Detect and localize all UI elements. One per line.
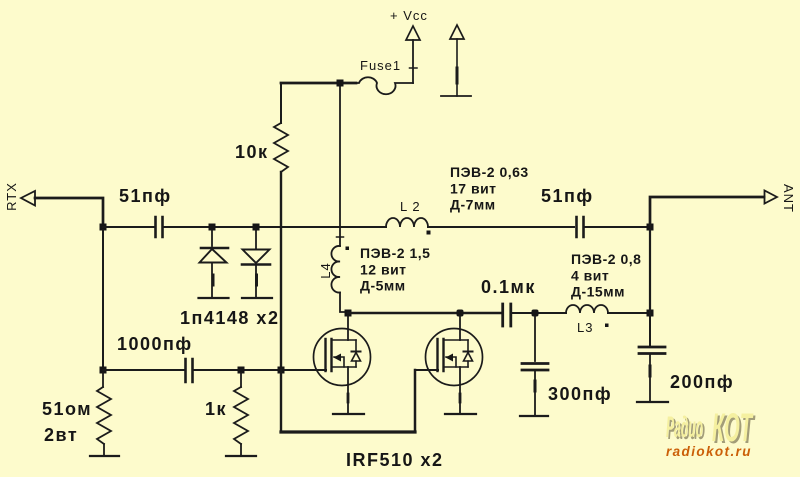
- resistor R 51om zigzag: [97, 387, 111, 444]
- transistor Q1 gate bar: [324, 339, 326, 371]
- capacitor C 51pf output: [577, 217, 584, 237]
- svg-text:Д-5мм: Д-5мм: [360, 278, 406, 294]
- wire top rail to fuse: [281, 82, 356, 85]
- inductor L3 coil: [566, 305, 608, 313]
- capacitor C 0.1mk: [503, 304, 511, 326]
- wire 1000pf node vertical: [102, 230, 104, 370]
- wire input line mid: [164, 226, 386, 228]
- transistor Q2 source stub: [444, 366, 469, 368]
- wire L4 to drain rail: [340, 293, 348, 313]
- transistor Q1 body stub + arrow: [334, 357, 344, 367]
- svg-text:Радио: Радио: [666, 411, 703, 444]
- resistor R 10k zigzag: [274, 123, 288, 172]
- transistor Q1 source stub: [332, 366, 357, 368]
- transistor Q1 source lead: [347, 367, 349, 413]
- resistor R 1k lead bottom: [240, 444, 242, 456]
- svg-text:RTX: RTX: [4, 182, 19, 211]
- wire gate line left: [103, 369, 184, 371]
- svg-text:51пф: 51пф: [541, 186, 594, 206]
- pin dash Q2 source: [459, 394, 462, 402]
- wire input line left: [103, 226, 154, 228]
- transistor Q2 drain stub: [444, 339, 469, 341]
- capacitor C 1000pf: [186, 359, 193, 382]
- diode D1 cathode bar: [201, 247, 228, 250]
- ground 1k: [226, 455, 256, 457]
- ground bar (aux): [441, 95, 471, 97]
- ground 200pf: [637, 401, 668, 403]
- svg-text:2вт: 2вт: [44, 425, 78, 445]
- wire bias drop to gate bus: [280, 370, 282, 432]
- wire cap to L3: [512, 312, 566, 314]
- resistor R 10k lead top: [280, 83, 282, 123]
- wire to ANT node: [585, 226, 650, 228]
- transistor Q2 body stub + arrow: [446, 357, 456, 367]
- junction 1k node: [238, 367, 245, 374]
- transistor Q1 drain lead: [347, 316, 349, 340]
- winding dot L4: [346, 247, 350, 251]
- svg-text:0.1мк: 0.1мк: [481, 277, 536, 297]
- port RTX arrow: [21, 191, 35, 206]
- svg-text:ANT: ANT: [781, 184, 796, 213]
- watermark Радио КОТ: [666, 406, 756, 459]
- transistor Q1 body diode: [355, 340, 357, 367]
- pin dash 200pf: [649, 366, 652, 376]
- resistor R 51om lead: [102, 373, 104, 387]
- ground Q1: [333, 413, 364, 415]
- pin dash on Vcc stem: [410, 67, 418, 69]
- wire aux stem: [456, 39, 458, 96]
- pin dash on L4 feed: [337, 236, 344, 238]
- pin dash D1: [212, 275, 215, 285]
- wire RTX lead: [35, 198, 103, 227]
- junction diode D1 node: [209, 224, 216, 231]
- inductor L2 coil: [386, 218, 428, 227]
- junction at top rail x340: [337, 80, 344, 87]
- fuse F1 symbol: [356, 77, 413, 94]
- svg-text:10к: 10к: [235, 142, 269, 162]
- junction output node: [647, 310, 654, 317]
- power symbol +Vcc arrow: [406, 26, 420, 40]
- wire gate lead M2: [415, 369, 438, 371]
- ground D2: [242, 297, 272, 299]
- diode D2 lead bottom: [255, 265, 257, 297]
- capacitor C 51pf input: [156, 217, 163, 237]
- ground 51om: [90, 455, 119, 457]
- junction bias node: [278, 367, 285, 374]
- transistor Q2 gate bar: [436, 339, 438, 371]
- resistor R 51om lead bottom: [103, 444, 105, 456]
- svg-text:4 вит: 4 вит: [571, 268, 609, 284]
- pin dash D2: [255, 275, 258, 285]
- resistor R 1k zigzag: [234, 387, 248, 444]
- wire bias line vertical x282: [280, 172, 282, 370]
- svg-text:radiokot.ru: radiokot.ru: [666, 444, 752, 459]
- wire gate bus riser: [414, 370, 417, 432]
- resistor R 1k lead: [240, 373, 242, 387]
- wire L3 to ANT node: [608, 312, 650, 314]
- svg-text:1к: 1к: [205, 399, 227, 419]
- diode D1 triangle: [200, 249, 227, 263]
- junction drain node M1: [345, 310, 352, 317]
- ground 300pf: [520, 415, 548, 417]
- inductor L4 coil: [331, 246, 340, 293]
- svg-text:ПЭВ-2 1,5: ПЭВ-2 1,5: [360, 245, 430, 261]
- svg-text:300пф: 300пф: [548, 384, 612, 404]
- junction 300pf node: [532, 310, 539, 317]
- svg-text:ПЭВ-2 0,8: ПЭВ-2 0,8: [571, 251, 641, 267]
- capacitor C 200pf lead: [649, 313, 651, 345]
- winding dot L2: [427, 231, 431, 235]
- svg-text:L3: L3: [577, 320, 593, 335]
- capacitor C 200pf lead bottom: [649, 355, 651, 401]
- winding dot L3: [605, 324, 609, 328]
- svg-text:200пф: 200пф: [670, 372, 734, 392]
- junction drain node M2: [457, 310, 464, 317]
- svg-text:51пф: 51пф: [119, 186, 172, 206]
- ground Q2: [445, 413, 476, 415]
- svg-text:IRF510 x2: IRF510 x2: [346, 450, 444, 470]
- diode D2 lead: [255, 231, 257, 248]
- pin dash Q1 source: [347, 394, 350, 402]
- transistor Q2 channel dashes: [442, 339, 444, 371]
- svg-text:L 2: L 2: [400, 199, 421, 214]
- svg-text:Д-7мм: Д-7мм: [450, 197, 496, 213]
- capacitor C 300pf lead: [534, 316, 536, 361]
- ground D1: [199, 297, 229, 299]
- svg-text:Fuse1: Fuse1: [360, 58, 401, 73]
- pin dash on aux stem: [456, 68, 459, 83]
- wire L4 feed vertical x340: [339, 87, 341, 246]
- transistor Q2 drain lead: [459, 316, 461, 340]
- transistor Q2 body diode: [467, 340, 469, 367]
- wire gate bus bottom: [281, 430, 415, 433]
- svg-text:17 вит: 17 вит: [450, 181, 497, 197]
- svg-text:1п4148 x2: 1п4148 x2: [180, 308, 279, 328]
- junction RTX node: [100, 224, 107, 231]
- svg-text:12 вит: 12 вит: [360, 262, 407, 278]
- transistor Q2 source lead: [459, 367, 461, 413]
- diode D2 triangle: [243, 250, 270, 264]
- junction ANT node: [647, 224, 654, 231]
- wire gate line right: [194, 369, 326, 371]
- capacitor C 300pf lead bottom: [534, 371, 536, 415]
- diode D1 lead bottom: [211, 263, 213, 297]
- transistor Q1 IRF510 body circle: [314, 329, 371, 386]
- wire Vcc stem: [412, 40, 414, 83]
- svg-text:L4: L4: [318, 262, 333, 278]
- svg-text:51ом: 51ом: [42, 399, 92, 419]
- transistor Q1 channel dashes: [330, 339, 332, 371]
- power symbol arrow (aux, right of Vcc): [450, 25, 464, 39]
- svg-text:+ Vcc: + Vcc: [390, 8, 428, 23]
- svg-text:1000пф: 1000пф: [117, 334, 193, 354]
- diode D1 lead: [211, 231, 213, 246]
- wire drain rail: [348, 312, 501, 315]
- capacitor C 200pf: [639, 347, 665, 354]
- svg-text:Д-15мм: Д-15мм: [571, 284, 625, 300]
- wire ANT node vertical: [649, 230, 651, 313]
- port ANT arrow: [765, 191, 778, 204]
- capacitor C 300pf: [522, 364, 548, 371]
- transistor Q2 IRF510 body circle: [426, 329, 483, 386]
- wire input line right: [428, 226, 574, 228]
- junction 1000pf node: [100, 367, 107, 374]
- wire ANT riser: [650, 197, 764, 227]
- diode D2 cathode bar: [242, 263, 270, 266]
- junction diode D2 node: [253, 224, 260, 231]
- transistor Q1 drain stub: [332, 339, 357, 341]
- svg-text:ПЭВ-2 0,63: ПЭВ-2 0,63: [450, 164, 529, 180]
- pin dash 300pf: [534, 381, 537, 391]
